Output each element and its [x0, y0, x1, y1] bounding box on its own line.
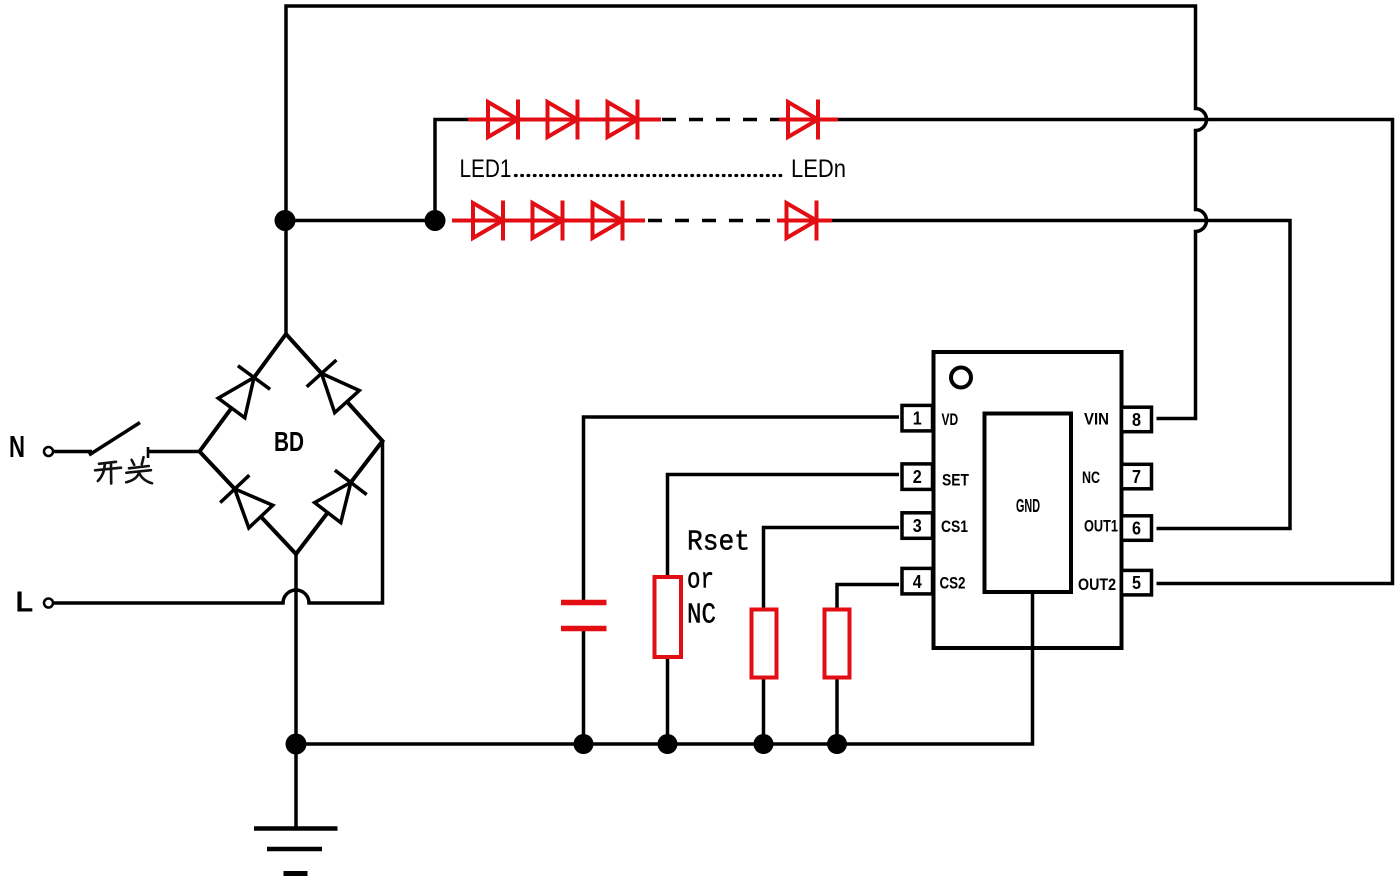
svg-text:CS1: CS1	[941, 517, 968, 536]
svg-text:3: 3	[913, 516, 922, 536]
svg-text:2: 2	[913, 467, 922, 487]
svg-text:LED1: LED1	[460, 155, 512, 183]
svg-text:CS2: CS2	[940, 574, 966, 593]
svg-text:BD: BD	[274, 426, 304, 457]
svg-text:or: or	[687, 564, 714, 597]
svg-text:OUT2: OUT2	[1078, 575, 1116, 594]
svg-text:VD: VD	[942, 410, 959, 429]
svg-text:4: 4	[913, 572, 922, 592]
svg-text:7: 7	[1132, 467, 1141, 487]
svg-text:5: 5	[1132, 573, 1141, 593]
svg-text:SET: SET	[942, 471, 970, 490]
svg-text:1: 1	[913, 409, 922, 429]
svg-text:L: L	[16, 587, 34, 619]
svg-text:VIN: VIN	[1084, 410, 1109, 429]
svg-text:6: 6	[1132, 519, 1141, 539]
svg-text:LEDn: LEDn	[791, 155, 846, 183]
svg-text:GND: GND	[1016, 496, 1040, 516]
svg-text:8: 8	[1132, 410, 1141, 430]
svg-text:OUT1: OUT1	[1084, 517, 1118, 536]
svg-text:NC: NC	[1082, 468, 1100, 487]
svg-text:Rset: Rset	[687, 526, 750, 559]
svg-text:NC: NC	[687, 599, 716, 632]
svg-text:N: N	[9, 429, 25, 464]
